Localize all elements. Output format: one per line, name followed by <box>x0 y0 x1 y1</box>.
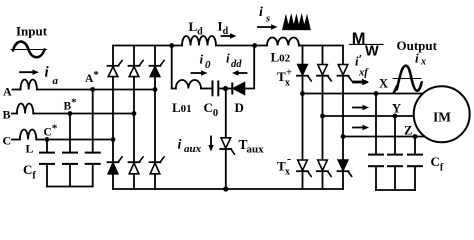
wire L01 to C0 <box>201 88 212 90</box>
wire output line Y <box>323 115 415 117</box>
thyristor rectifier top-left <box>108 60 123 76</box>
input sine wave icon <box>11 42 48 58</box>
wire top DC rail <box>113 45 182 47</box>
svg-text:i: i <box>226 51 230 66</box>
wire phase C <box>12 139 20 141</box>
node snubber-left rail junction dot <box>169 43 174 48</box>
thyristor inverter bottom-left <box>297 160 311 177</box>
wire output line X <box>303 93 423 95</box>
inverter leg 3 wire <box>342 46 344 190</box>
wire phase A to bridge <box>37 89 155 91</box>
capacitor Cf phase A stub <box>92 90 94 153</box>
capacitor Cf phase B stub <box>69 114 71 153</box>
wire phase A <box>13 89 21 91</box>
thyristor inverter bottom-middle <box>317 160 331 177</box>
wire output line Z <box>343 136 426 138</box>
node snubber mid junction dot <box>223 86 228 91</box>
rectifier leg 2 wire <box>133 46 135 190</box>
arrow Y <box>353 105 369 110</box>
node snubber-right rail junction dot <box>252 43 257 48</box>
svg-text:L02: L02 <box>271 50 291 65</box>
wire D to right riser <box>245 46 255 89</box>
inverter leg 1 wire <box>302 46 304 190</box>
thyristor rectifier bottom-middle <box>129 157 144 174</box>
inductor L phase A <box>21 80 37 90</box>
output sine wave icon <box>393 66 422 93</box>
motor IM <box>414 86 470 142</box>
svg-text:i′: i′ <box>355 52 362 69</box>
thyristor inverter top-middle <box>317 65 331 82</box>
svg-text:i: i <box>200 52 204 67</box>
svg-text:0: 0 <box>205 59 211 71</box>
thyristor rectifier bottom-right <box>150 157 165 174</box>
node Z - Cf junction dot <box>413 134 418 139</box>
svg-text:Input: Input <box>16 24 48 39</box>
node C* junction dot <box>45 137 50 142</box>
svg-text:aux: aux <box>247 144 265 156</box>
arrow Z <box>353 125 369 130</box>
svg-text:Z: Z <box>404 124 412 138</box>
inductor L phase B <box>17 104 33 114</box>
arrow Id <box>222 33 237 38</box>
wire phase B to bridge <box>33 113 134 115</box>
wire Cf common rail left <box>47 186 93 188</box>
svg-text:i: i <box>415 51 419 66</box>
thyristor T_aux <box>220 138 234 155</box>
svg-text:A: A <box>3 85 12 99</box>
svg-text:B: B <box>3 108 11 122</box>
node bottom rail T_aux junction dot <box>223 186 228 191</box>
capacitor Cf output X stub <box>375 94 377 155</box>
svg-text:i: i <box>178 138 182 153</box>
thyristor rectifier bottom-left (conducting, filled) <box>108 157 123 174</box>
waveform icon i_xf pulses (M/W) <box>349 30 384 59</box>
wire snubber left riser <box>172 46 176 89</box>
inductor L phase C <box>20 130 36 140</box>
capacitor Cf phase C stub <box>46 140 48 153</box>
node rectifier leg2 - phase B junction dot <box>132 111 137 116</box>
arrow X <box>353 80 369 85</box>
svg-text:IM: IM <box>433 110 451 125</box>
inductor L02 <box>267 38 299 46</box>
svg-text:x: x <box>285 78 290 89</box>
arrow i_0 <box>192 70 208 75</box>
thyristor inverter top-right <box>338 65 352 82</box>
svg-text:L01: L01 <box>172 100 192 115</box>
node X - Cf junction dot <box>374 91 379 96</box>
wire C0 to D <box>219 88 232 90</box>
svg-text:Y: Y <box>392 102 401 116</box>
arrow i_aux down <box>208 137 213 152</box>
svg-text:x: x <box>420 57 426 68</box>
thyristor inverter bottom-right Tx- (conducting, filled) <box>338 160 352 177</box>
capacitor Cf output Y stub <box>394 116 396 154</box>
arrow i_dd (left) <box>232 70 247 75</box>
wire bottom DC rail <box>113 188 343 190</box>
thyristor rectifier top-right (conducting, filled) <box>150 60 165 76</box>
capacitor Cf output Z stub <box>414 137 416 155</box>
node A* junction dot <box>90 87 95 92</box>
svg-text:aux: aux <box>184 143 202 155</box>
svg-text:L: L <box>26 142 34 156</box>
inductor Ld <box>182 36 216 46</box>
svg-text:s: s <box>265 14 270 25</box>
thyristor rectifier top-middle <box>129 60 144 76</box>
svg-text:C: C <box>3 134 12 148</box>
svg-text:dd: dd <box>231 59 242 70</box>
thyristor inverter top-left Tx+ (conducting, filled) <box>297 65 311 82</box>
wire Cf common rail right <box>376 189 415 191</box>
svg-text:x: x <box>285 167 290 178</box>
rectifier leg 3 wire <box>154 46 156 190</box>
node rectifier leg1 - phase C junction dot <box>111 137 116 142</box>
svg-text:X: X <box>379 77 388 91</box>
arrow i_a <box>20 70 39 75</box>
wire phase C to bridge <box>36 139 113 141</box>
arrow i_xf <box>354 79 369 84</box>
node B* junction dot <box>68 111 73 116</box>
rectifier leg 1 wire <box>112 46 114 190</box>
svg-text:i: i <box>259 5 263 20</box>
svg-text:M: M <box>352 30 366 48</box>
svg-text:a: a <box>53 75 59 87</box>
diode D (filled, pointing left) <box>232 83 244 95</box>
node rectifier leg3 - phase A junction dot <box>153 87 158 92</box>
waveform icon i_s pulses <box>283 17 310 30</box>
node Y - Cf junction dot <box>393 114 398 119</box>
svg-text:D: D <box>235 100 244 115</box>
wire T_aux branch <box>225 89 227 190</box>
wire phase B <box>12 113 17 115</box>
svg-text:-: - <box>287 152 291 166</box>
svg-text:+: + <box>286 68 292 79</box>
inductor L01 <box>176 80 201 89</box>
svg-text:W: W <box>365 44 379 60</box>
node inverter leg3 - Z junction dot <box>341 134 346 139</box>
svg-text:xf: xf <box>358 68 369 79</box>
capacitor C0 <box>213 81 219 97</box>
arrow i_s <box>258 24 278 29</box>
node inverter leg1 - X junction dot <box>300 91 305 96</box>
inverter leg 2 wire <box>322 46 324 190</box>
node inverter leg2 - Y junction dot <box>320 114 325 119</box>
